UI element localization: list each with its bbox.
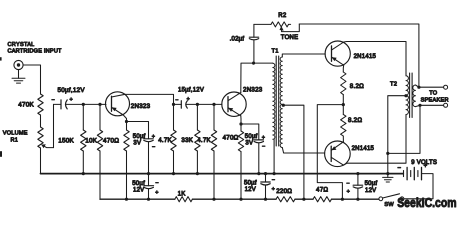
polarity C4: [262, 135, 266, 150]
input jack J1 (crystal cartridge input): [14, 60, 23, 69]
label .02µf: [230, 37, 245, 43]
capacitor C6 50µf 12V: [144, 174, 154, 200]
node C8 bottom lower rail: [356, 198, 359, 201]
svg-text:3V: 3V: [245, 140, 253, 146]
svg-text:−: −: [346, 181, 349, 187]
wire T1 secondary top to Q3 base: [282, 54, 325, 57]
node C2 bottom on rail: [147, 172, 150, 175]
scan mark left edge upper: [0, 57, 2, 60]
label Q3 2N1415: [354, 54, 377, 60]
svg-text:.02µf: .02µf: [230, 37, 245, 43]
polarity C1: [52, 97, 73, 103]
transistor Q4 2N1415: [325, 141, 351, 167]
speaker terminal bottom: [444, 103, 448, 107]
svg-text:47Ω: 47Ω: [316, 187, 328, 194]
node C7 top on rail: [264, 172, 267, 175]
svg-text:12V: 12V: [365, 188, 376, 194]
label 470K: [18, 101, 34, 108]
node Q2 emitter: [239, 122, 242, 125]
label 50µf 3V for C4: [245, 134, 258, 146]
resistor 4.7K stage2 bias: [211, 104, 216, 198]
label 4.7K stage1: [158, 137, 172, 144]
svg-text:T1: T1: [272, 49, 279, 55]
wire Q3 collector to T2: [344, 42, 406, 76]
label 470Ω stage1: [103, 138, 119, 145]
wire 470K to R1: [40, 115, 42, 127]
polarity C2: [152, 134, 156, 151]
label 8.2Ω upper: [350, 83, 364, 90]
potentiometer R1 VOLUME: [38, 127, 54, 148]
capacitor C4 50µf 3V (Q2 bypass): [254, 140, 263, 174]
transformer T1 primary: [273, 63, 275, 139]
ground at input jack: [12, 70, 25, 84]
wire T1 primary bottom to rail: [273, 139, 275, 173]
node 4.7K2 bottom lower rail: [212, 198, 215, 201]
svg-text:150K: 150K: [58, 138, 74, 145]
upper rail (battery minus): [41, 173, 404, 175]
svg-text:50µf: 50µf: [245, 134, 258, 140]
svg-text:CRYSTAL: CRYSTAL: [8, 42, 35, 48]
node 470Ω1 lower rail: [125, 198, 128, 201]
label 150K: [58, 138, 74, 145]
wire to T1 primary top: [254, 62, 273, 64]
svg-text:50µf: 50µf: [132, 181, 145, 187]
svg-text:3V: 3V: [133, 141, 141, 147]
wire to speaker top: [419, 86, 444, 88]
label 8.2Ω lower: [348, 117, 362, 124]
svg-text:12V: 12V: [245, 187, 256, 193]
svg-text:2N323: 2N323: [131, 103, 151, 110]
svg-text:VOLUME: VOLUME: [3, 131, 28, 137]
svg-text:TO: TO: [429, 90, 438, 96]
svg-text:+: +: [155, 190, 158, 196]
wire Q2 emitter to C4: [241, 124, 259, 140]
node C8 top on rail: [356, 172, 359, 175]
svg-text:SW: SW: [384, 202, 394, 208]
svg-text:SeekIC.com: SeekIC.com: [397, 195, 456, 210]
node C4 bottom on rail: [257, 172, 260, 175]
label T2: [390, 82, 397, 88]
watermark SeekIC.com: [397, 195, 456, 210]
label VOLUME R1: [3, 131, 28, 144]
capacitor C2 50µf 3V (Q1 bypass): [144, 139, 153, 174]
svg-text:R2: R2: [278, 13, 287, 19]
node C7 lower rail: [264, 198, 267, 201]
node 150K top: [82, 103, 85, 106]
resistor 33K: [195, 104, 200, 173]
wire emitter junction to lower rail: [317, 105, 343, 199]
lower rail segment B: [192, 198, 276, 200]
svg-text:2N1415: 2N1415: [354, 54, 377, 60]
label 4.7K stage2: [197, 137, 211, 144]
wire Q1 emitter to C2: [127, 122, 149, 139]
node T2 primary center tap: [404, 94, 407, 97]
label T1: [272, 49, 279, 55]
label 1K: [178, 191, 187, 198]
wire secondary bottom lead: [416, 105, 421, 106]
svg-text:2N1415: 2N1415: [352, 146, 375, 152]
svg-text:−: −: [52, 97, 55, 103]
lower rail segment D: [332, 198, 379, 200]
node center tap on lower rail: [302, 198, 305, 201]
svg-text:+: +: [347, 189, 350, 195]
transformer T1 secondary: [280, 57, 282, 148]
wire R1 bottom to ground rail: [40, 148, 42, 174]
resistor 220Ω: [276, 197, 295, 202]
svg-text:4.7K: 4.7K: [158, 137, 172, 144]
capacitor C5 .02µf (tone): [249, 24, 258, 63]
label R2: [278, 13, 287, 19]
svg-text:8.2Ω: 8.2Ω: [350, 83, 364, 90]
node 4.7K bottom on rail: [172, 172, 175, 175]
wire Q3 emitter to 8.2Ω: [342, 65, 344, 72]
resistor 470K: [38, 94, 43, 115]
label Q1 2N323: [131, 103, 151, 110]
svg-text:T2: T2: [390, 82, 397, 88]
wire T1 center tap to lower rail: [283, 105, 304, 198]
wire Q2 collector up: [241, 63, 254, 93]
resistor 8.2Ω upper: [341, 72, 346, 105]
svg-text:220Ω: 220Ω: [276, 188, 292, 195]
lower rail segment C: [295, 198, 313, 200]
label 220Ω: [276, 188, 292, 195]
polarity C7: [272, 177, 276, 192]
svg-text:8.2Ω: 8.2Ω: [348, 117, 362, 124]
wire Q2 emitter down: [240, 116, 242, 124]
label Q4 2N1415: [352, 146, 375, 152]
label SW: [384, 202, 394, 208]
label 9 VOLTS: [411, 160, 437, 166]
wire secondary return: [388, 105, 420, 153]
svg-text:50µf: 50µf: [365, 181, 378, 187]
svg-text:+: +: [272, 186, 275, 192]
label 10K: [85, 138, 98, 145]
svg-text:R1: R1: [11, 137, 19, 143]
node 4.7K collector junction: [172, 103, 175, 106]
transistor Q2 2N323: [222, 92, 246, 116]
label 47Ω: [316, 187, 328, 194]
svg-text:50µf: 50µf: [133, 134, 146, 140]
node battery minus on rail: [386, 172, 389, 175]
node 4.7K2 top: [212, 103, 215, 106]
transistor Q3 2N1415: [325, 41, 350, 66]
svg-text:CARTRIDGE INPUT: CARTRIDGE INPUT: [8, 48, 63, 54]
node Q1 emitter: [125, 120, 128, 123]
node T2 secondary bottom: [418, 104, 421, 107]
svg-text:50µf: 50µf: [244, 180, 257, 186]
transformer T2 core: [410, 73, 413, 118]
wire to speaker bottom: [420, 104, 444, 106]
svg-text:−: −: [262, 144, 265, 150]
svg-text:33K: 33K: [181, 137, 193, 144]
resistor 1K: [175, 197, 193, 202]
capacitor C7 50µf 12V: [261, 174, 270, 200]
resistor 470Ω stage1 emitter: [124, 122, 129, 199]
resistor 8.2Ω lower: [341, 105, 346, 136]
wire T2 center tap to battery minus: [388, 96, 406, 174]
wire 8.2Ω lower to Q4 emitter: [342, 136, 344, 142]
node 33K top: [196, 103, 199, 106]
svg-text:470Ω: 470Ω: [223, 135, 239, 142]
label 50µf 12V for C8: [365, 181, 378, 194]
node C6 lower rail: [147, 198, 150, 201]
resistor 150K: [81, 104, 86, 173]
label TO SPEAKER: [421, 90, 449, 103]
node T2 secondary top: [417, 86, 420, 89]
polarity C8: [346, 181, 350, 195]
wire Q1 collector up-over: [125, 94, 174, 104]
label 50µf,12V for C1: [58, 87, 86, 94]
node T1 secondary center tap: [282, 104, 285, 107]
wire jack to 470K: [23, 65, 40, 94]
wire battery plus to switch: [404, 174, 433, 199]
svg-text:−: −: [397, 166, 401, 172]
wire Q1 emitter down: [123, 115, 126, 122]
node 150K bottom on rail: [82, 172, 85, 175]
svg-text:+: +: [70, 97, 73, 103]
svg-text:−: −: [155, 181, 158, 187]
svg-text:470K: 470K: [18, 101, 34, 108]
svg-text:−: −: [272, 177, 275, 183]
node battery minus junction A: [386, 152, 389, 155]
node 33K bottom on rail: [196, 172, 199, 175]
wire T1 secondary bottom to Q4 base: [282, 148, 324, 154]
svg-text:50µf,12V: 50µf,12V: [58, 87, 86, 94]
svg-text:470Ω: 470Ω: [103, 138, 119, 145]
svg-text:+: +: [262, 135, 265, 141]
polarity C3: [175, 97, 190, 104]
node 10K top: [98, 103, 101, 106]
svg-text:−: −: [152, 145, 155, 151]
switch SW: [379, 194, 404, 201]
svg-text:+: +: [152, 134, 155, 140]
wire secondary top lead: [416, 85, 419, 87]
transformer T1 core: [276, 56, 279, 146]
svg-text:2N323: 2N323: [243, 86, 263, 93]
svg-text:15µf,12V: 15µf,12V: [178, 88, 204, 94]
label Q2 2N323: [243, 86, 263, 93]
svg-text:TONE: TONE: [281, 35, 299, 41]
node 470Ω2 bottom lower rail: [239, 198, 242, 201]
resistor 4.7K stage1 load: [171, 104, 176, 173]
svg-text:4.7K: 4.7K: [197, 137, 211, 144]
resistor 47Ω: [313, 197, 331, 202]
svg-text:+: +: [187, 97, 190, 103]
potentiometer R2 TONE: [254, 22, 299, 32]
node T1 primary bottom on rail: [273, 172, 276, 175]
wire R2 wiper feedback line: [299, 24, 419, 87]
capacitor C1 50µf 12V (input coupling): [54, 100, 107, 109]
node emitter junction: [342, 103, 345, 106]
node emitter return on lower rail: [341, 198, 344, 201]
svg-text:1K: 1K: [178, 191, 187, 198]
capacitor C8 50µf 12V: [353, 174, 362, 200]
svg-text:12V: 12V: [133, 187, 144, 193]
transistor Q1 2N323: [106, 92, 130, 116]
svg-text:+: +: [424, 163, 428, 169]
label 50µf 12V for C7: [244, 180, 257, 192]
label 15µf,12V: [178, 88, 204, 94]
polarity battery: [397, 163, 427, 171]
speaker terminal top: [444, 85, 448, 89]
transformer T2 primary: [406, 76, 408, 115]
resistor 470Ω stage2 emitter: [238, 124, 243, 199]
node .02µf branch: [252, 62, 255, 65]
battery B1 9 volts: [404, 167, 422, 179]
scan mark left edge lower: [0, 151, 2, 157]
label 470Ω stage2: [223, 135, 239, 142]
wire lower rail to switch: [378, 198, 380, 200]
transformer T2 secondary: [413, 85, 416, 107]
polarity C6: [155, 181, 159, 197]
wire R1 wiper to C1: [53, 104, 55, 147]
wire Q4 collector to T2 primary bottom: [343, 115, 406, 166]
label 33K: [181, 137, 193, 144]
svg-text:−: −: [175, 98, 178, 104]
label 50µf 3V for C2: [133, 134, 146, 146]
resistor 10K: [97, 104, 102, 198]
label 50µf 12V for C6: [132, 181, 145, 194]
label CRYSTAL CARTRIDGE INPUT: [8, 42, 63, 54]
capacitor C3 15µf 12V (interstage coupling): [174, 101, 222, 108]
svg-text:10K: 10K: [85, 138, 98, 145]
svg-text:SPEAKER: SPEAKER: [421, 98, 449, 104]
lower rail segment A: [100, 198, 175, 201]
label TONE: [281, 35, 299, 41]
ground at battery: [383, 174, 393, 182]
